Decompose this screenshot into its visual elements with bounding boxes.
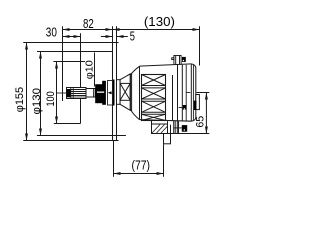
extension line 30 right: [80, 33, 82, 123]
bottom bracket: [174, 121, 182, 134]
dimension (130): [113, 29, 200, 31]
svg-text:(77): (77): [132, 158, 151, 173]
dimension 5: [101, 36, 113, 38]
extension line 82 left: [62, 26, 64, 101]
body outline bottom: [140, 120, 192, 122]
shaft collar: [95, 84, 105, 103]
dimension (77): [113, 141, 115, 177]
bell rim vertical: [139, 66, 141, 119]
dimension 65: [197, 92, 210, 94]
rib cross box 2: [142, 88, 166, 99]
dimension 30: [63, 36, 81, 38]
shaft hub left: [108, 81, 113, 106]
dimension phi10 leader: [94, 53, 96, 87]
rib cross box 4: [142, 114, 166, 120]
drain pipe: [164, 134, 171, 144]
bottom screw: [182, 125, 187, 132]
bell mouth ring: [130, 74, 131, 110]
cone section: [120, 74, 130, 110]
svg-text:(130): (130): [144, 14, 175, 29]
dimension 100: [53, 61, 85, 63]
shaft plain section: [86, 89, 95, 98]
hub right: [117, 80, 121, 105]
rib cross box 3: [142, 101, 166, 112]
right face boss: [196, 95, 200, 110]
bell expansion top: [131, 66, 140, 75]
housing seam 2: [177, 65, 179, 121]
svg-text:φ10: φ10: [84, 60, 95, 79]
middle screw: [183, 105, 187, 110]
svg-text:65: 65: [195, 116, 207, 128]
housing seam 5: [192, 64, 194, 121]
svg-text:82: 82: [83, 16, 94, 31]
rib cross box 1: [142, 75, 166, 86]
svg-text:30: 30: [46, 24, 57, 39]
dimension phi155: [23, 42, 118, 44]
centerline: [57, 91, 191, 94]
svg-text:φ155: φ155: [14, 87, 26, 112]
top screw: [182, 57, 186, 62]
extension line 130 right: [199, 26, 201, 65]
svg-text:100: 100: [45, 91, 57, 106]
body right face: [195, 68, 197, 119]
hub arrow mark: [108, 91, 112, 94]
body top right corner: [191, 64, 196, 68]
rib divider 1: [142, 86, 166, 88]
extension line flange right face: [116, 26, 118, 42]
flange phi155 plate: [113, 43, 117, 141]
housing seam 1: [172, 75, 174, 121]
top clamp: [172, 56, 182, 65]
extension line flange left face: [112, 26, 114, 42]
flange dark center band: [113, 80, 115, 106]
svg-text:φ130: φ130: [31, 88, 43, 115]
dimension 82: [63, 29, 113, 31]
housing seam 3b: [185, 65, 187, 121]
bell expansion bottom: [131, 110, 140, 120]
svg-text:5: 5: [130, 28, 135, 43]
dimension phi130: [37, 51, 113, 53]
shaft threaded section: [67, 88, 87, 99]
ribbed column outer: [142, 75, 166, 121]
rib divider 3: [142, 112, 166, 114]
body outline top: [140, 64, 192, 66]
housing seam 3: [181, 65, 183, 121]
housing seam 4: [190, 64, 192, 121]
rib divider 2: [142, 99, 166, 101]
foot bottom line / 65 lower extension: [152, 133, 210, 135]
body bottom right corner: [191, 118, 196, 121]
foot box: [152, 124, 168, 134]
cone cross box: [120, 83, 130, 100]
